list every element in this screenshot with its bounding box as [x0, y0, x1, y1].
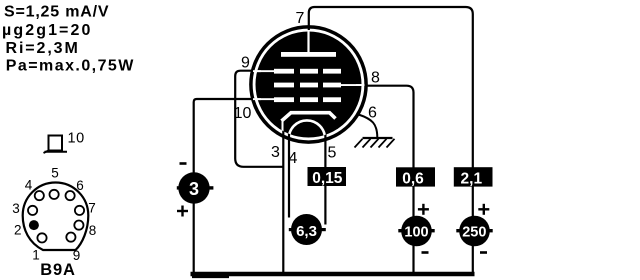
- grid g3 lead white: [255, 70, 275, 72]
- base pin 2 filled dot: [29, 220, 39, 230]
- grid g1 dashes: [274, 97, 294, 102]
- svg-text:4: 4: [25, 178, 33, 193]
- box 2,1 anode current: [454, 167, 493, 186]
- svg-text:µg2g1=20: µg2g1=20: [2, 22, 93, 39]
- svg-text:3: 3: [189, 179, 199, 199]
- minus sign 250: [480, 251, 487, 254]
- base pin hole 8: [74, 221, 83, 230]
- box 0,15 heater current: [308, 167, 347, 186]
- svg-text:2,1: 2,1: [461, 170, 483, 187]
- anode bar: [281, 52, 336, 57]
- svg-text:10: 10: [234, 105, 252, 122]
- base pin hole 3: [28, 206, 37, 215]
- wire pin9 g3 to cathode link: [235, 71, 283, 167]
- base pin hole 9: [66, 233, 75, 242]
- base pin hole 6: [66, 191, 75, 200]
- svg-text:S=1,25 mA/V: S=1,25 mA/V: [4, 4, 109, 21]
- anode lead white: [307, 29, 309, 53]
- svg-text:8: 8: [89, 223, 97, 238]
- svg-text:2: 2: [14, 223, 22, 238]
- svg-text:5: 5: [51, 166, 59, 181]
- B9A base outline: [23, 183, 89, 251]
- ground symbol: [355, 138, 395, 148]
- base pin hole 5: [50, 190, 59, 199]
- svg-text:Pa=max.0,75W: Pa=max.0,75W: [6, 58, 135, 75]
- grid g3 dashes: [274, 69, 294, 74]
- svg-text:6,3: 6,3: [296, 223, 317, 240]
- grid g2 dashes: [274, 83, 294, 88]
- box 0,6 screen current: [396, 167, 435, 186]
- svg-text:0,15: 0,15: [312, 170, 343, 187]
- svg-text:7: 7: [296, 10, 305, 27]
- svg-text:4: 4: [289, 150, 298, 167]
- supply 250 anode: [459, 216, 490, 247]
- cathode lead white: [282, 119, 284, 134]
- svg-text:250: 250: [462, 224, 486, 240]
- svg-text:7: 7: [88, 201, 96, 216]
- base pin hole 7: [75, 206, 84, 215]
- plus sign 100: [418, 204, 429, 215]
- svg-text:3: 3: [271, 144, 280, 161]
- battery 3 V grid bias: [178, 172, 209, 203]
- svg-text:5: 5: [328, 145, 337, 162]
- heater dome: [289, 120, 325, 138]
- base pin hole 4: [35, 191, 44, 200]
- supply 100 screen: [401, 216, 432, 247]
- minus sign of bias: [180, 162, 187, 165]
- svg-text:6: 6: [368, 105, 377, 122]
- top cap symbol: [44, 136, 68, 154]
- svg-text:9: 9: [241, 55, 250, 72]
- tube envelope outer ring: [251, 27, 366, 142]
- wire pin8 screen to 100 branch: [365, 86, 414, 273]
- grid g1 lead white: [255, 98, 275, 100]
- wire pin4 heater leg: [288, 132, 290, 218]
- wire pin6 shield to ground: [359, 115, 378, 138]
- minus sign 100: [422, 251, 429, 254]
- g2 lead ring break: [356, 84, 365, 86]
- wire pin5 heater leg: [324, 132, 326, 225]
- g1 lead ring break: [253, 98, 261, 100]
- svg-text:100: 100: [404, 224, 428, 240]
- rail left smear: [192, 276, 229, 278]
- tube black disc: [256, 32, 362, 138]
- svg-text:Ri=2,3M: Ri=2,3M: [6, 40, 80, 57]
- supply 6,3 heater: [291, 214, 322, 245]
- plus sign of bias: [177, 206, 188, 217]
- grid g2 lead white: [340, 84, 362, 86]
- wire pin10 g1 to bias battery: [194, 99, 253, 273]
- svg-text:0,6: 0,6: [402, 170, 424, 187]
- svg-text:8: 8: [371, 70, 380, 87]
- wire pin7 anode to top rail and 250 branch: [309, 7, 473, 273]
- g3 lead ring break: [253, 70, 261, 72]
- svg-text:10: 10: [68, 131, 85, 147]
- bottom common rail: [191, 272, 475, 276]
- plus sign 250: [478, 204, 489, 215]
- svg-text:1: 1: [32, 248, 40, 263]
- svg-text:3: 3: [12, 201, 20, 216]
- cathode: [282, 113, 336, 121]
- svg-text:6: 6: [76, 178, 84, 193]
- base pin hole 1: [37, 233, 46, 242]
- svg-text:B9A: B9A: [40, 261, 75, 279]
- wire pin3 cathode down: [282, 130, 284, 273]
